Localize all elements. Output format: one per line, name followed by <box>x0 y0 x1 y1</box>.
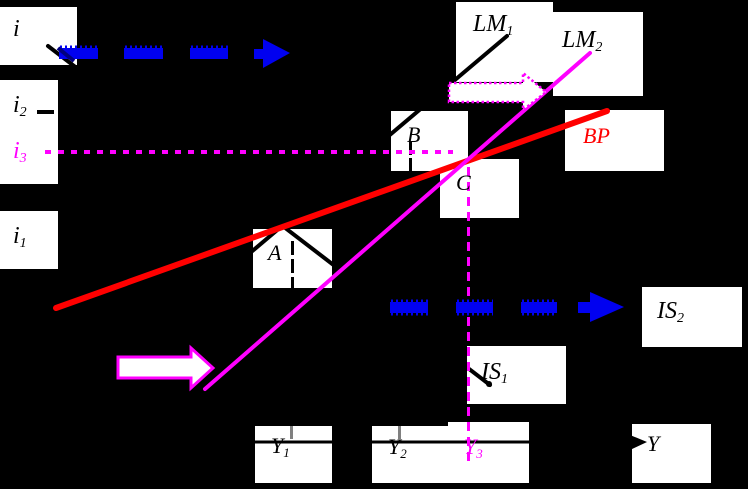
label box A <box>253 229 332 288</box>
label box IS2 <box>642 287 742 347</box>
svg-text:B: B <box>407 122 420 147</box>
svg-text:C: C <box>456 170 471 195</box>
LM1 curve (black) <box>250 36 507 253</box>
blue dashed arrow top <box>58 39 290 68</box>
label box i <box>0 7 77 65</box>
svg-text:BP: BP <box>583 123 610 148</box>
LM2 curve (magenta) <box>205 53 590 389</box>
white block arrow upper (dotted magenta outline) <box>449 73 546 110</box>
label box IS1 <box>467 346 566 404</box>
BP curve (red) <box>56 111 607 308</box>
magenta dashed vertical through C to Y3 <box>467 167 470 463</box>
grey tick above Y1 <box>290 426 293 439</box>
label box Y1 <box>255 426 332 483</box>
label box i2 i3 <box>0 80 58 184</box>
label box Y2 <box>372 426 505 483</box>
label box i1 <box>0 211 58 269</box>
dashed vertical below A <box>291 241 294 289</box>
axis tick at i2 <box>37 110 54 114</box>
horizontal axis Y <box>60 435 647 450</box>
dark overlap of IS1 under first dash <box>58 48 74 61</box>
label box BP <box>565 110 664 171</box>
grey tick above Y2 <box>398 426 401 439</box>
IS1 curve (black, visible over white boxes) <box>48 46 492 387</box>
white block arrow lower (solid magenta outline) <box>118 348 213 388</box>
svg-text:i: i <box>13 16 20 42</box>
blue dashed arrow middle <box>390 292 624 322</box>
svg-text:A: A <box>266 240 282 265</box>
label box Y <box>632 424 711 483</box>
magenta dashed horizontal at i3 <box>45 150 453 154</box>
label box LM1 <box>456 2 553 82</box>
label box Y3 <box>448 422 529 483</box>
label box LM2 <box>553 12 643 96</box>
label box B <box>391 111 468 171</box>
label box C <box>440 159 519 218</box>
dashed vertical below B <box>409 142 412 171</box>
